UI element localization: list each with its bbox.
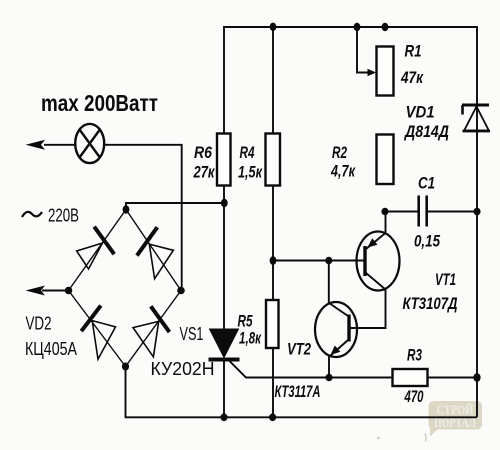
- resistor R2: [377, 135, 394, 185]
- junction bridge top (+): [123, 205, 130, 213]
- bridge diamond sides: [69, 210, 182, 367]
- mains arrow top: [26, 140, 46, 150]
- wire lamp line: [44, 144, 75, 146]
- resistor R6: [217, 134, 231, 186]
- svg-text:VT2: VT2: [287, 340, 311, 359]
- wire R4 column top: [272, 27, 274, 134]
- diode bridge VD2: top-left diode: [77, 227, 115, 269]
- svg-text:Д814Д: Д814Д: [403, 122, 449, 141]
- junction bridge bottom (-): [122, 363, 129, 371]
- svg-text:R1: R1: [405, 42, 422, 61]
- wire R4 to R5: [272, 186, 274, 301]
- wire VT1 emitter up: [385, 212, 387, 233]
- zener diode VD1: [462, 105, 490, 131]
- transistor VT2: [315, 302, 357, 357]
- wire mains lower: [42, 290, 69, 292]
- thyristor VS1: [209, 329, 240, 360]
- junction C1 right rail: [473, 208, 480, 216]
- transistor VT1: [357, 232, 400, 291]
- wire R3 right: [428, 377, 478, 379]
- svg-text:VS1: VS1: [180, 324, 204, 344]
- label ~220V tilde: [22, 212, 42, 217]
- junction R5 bottom rail: [269, 414, 276, 422]
- resistor R4: [266, 134, 281, 186]
- junction R4/R5 base node: [270, 256, 277, 265]
- wire bridge top to R6 node: [126, 203, 224, 210]
- svg-text:КЦ405А: КЦ405А: [25, 339, 77, 359]
- potentiometer R1 wiper arrow: [368, 69, 377, 76]
- junction VS1 cathode bottom rail: [220, 414, 227, 422]
- wire base rail y260: [273, 260, 364, 262]
- svg-text:R6: R6: [194, 143, 212, 162]
- wire VT2 emitter down: [328, 357, 330, 378]
- wire VT2 collector up: [328, 261, 330, 303]
- diode bridge VD2: bottom-right diode: [133, 306, 169, 357]
- junction bridge left (AC): [65, 287, 73, 295]
- resistor R5: [266, 300, 279, 348]
- wire VS1 cathode to bottom rail: [223, 360, 225, 418]
- svg-text:VD1: VD1: [406, 103, 435, 122]
- svg-text:47к: 47к: [400, 68, 424, 87]
- svg-text:1,5к: 1,5к: [238, 163, 263, 182]
- wire R1 wiper: [357, 27, 371, 73]
- junction R1 wiper top rail: [354, 23, 361, 31]
- svg-text:VD2: VD2: [26, 314, 52, 334]
- resistor R1: [377, 47, 394, 96]
- svg-text:R4: R4: [240, 143, 255, 162]
- svg-text:R2: R2: [332, 143, 347, 162]
- svg-text:КУ202Н: КУ202Н: [151, 359, 215, 379]
- diode bridge VD2: top-right diode: [137, 227, 173, 279]
- svg-text:0,15: 0,15: [414, 232, 440, 251]
- svg-text:max 200Ватт: max 200Ватт: [41, 90, 158, 116]
- resistor R3: [393, 369, 428, 386]
- wire C1 right: [428, 211, 478, 213]
- junction R3 right rail: [473, 373, 480, 382]
- wire R6 to lamp node: [223, 186, 225, 330]
- junction VT2 emitter gate line: [325, 374, 332, 382]
- junction R1 top rail: [382, 23, 389, 31]
- svg-text:С1: С1: [418, 174, 435, 193]
- svg-text:R3: R3: [407, 346, 422, 365]
- junction R6 bottom node: [221, 199, 228, 207]
- wire bottom rail: [126, 367, 478, 418]
- wire R5 to bottom rail: [272, 348, 274, 417]
- junction bridge right (AC): [177, 287, 185, 295]
- watermark box: [429, 401, 483, 437]
- mains arrow bottom: [26, 286, 46, 296]
- wire VS1 gate: [230, 361, 393, 378]
- svg-text:4,7к: 4,7к: [330, 162, 356, 181]
- junction R4 top rail: [270, 23, 277, 31]
- wire VT1 collector down and VT2 base: [350, 290, 386, 329]
- svg-text:220В: 220В: [48, 206, 79, 226]
- wire top rail and right rail: [224, 27, 477, 417]
- svg-text:1,8к: 1,8к: [239, 329, 262, 348]
- wire C1 left: [385, 211, 418, 213]
- lamp: [75, 124, 104, 163]
- junction VT2 collector node: [325, 257, 332, 265]
- svg-text:VT1: VT1: [435, 270, 456, 289]
- svg-text:СТРОЙ: СТРОЙ: [437, 403, 474, 417]
- capacitor C1: [419, 196, 427, 227]
- diode bridge VD2: bottom-left diode: [81, 306, 115, 360]
- svg-text:КТ3117А: КТ3117А: [275, 382, 321, 401]
- stray faint marks: [425, 434, 427, 442]
- svg-text:27к: 27к: [193, 163, 216, 182]
- svg-text:КТ3107Д: КТ3107Д: [403, 294, 458, 313]
- junction C1 left / VT1 emitter: [381, 208, 388, 216]
- svg-text:470: 470: [404, 387, 424, 406]
